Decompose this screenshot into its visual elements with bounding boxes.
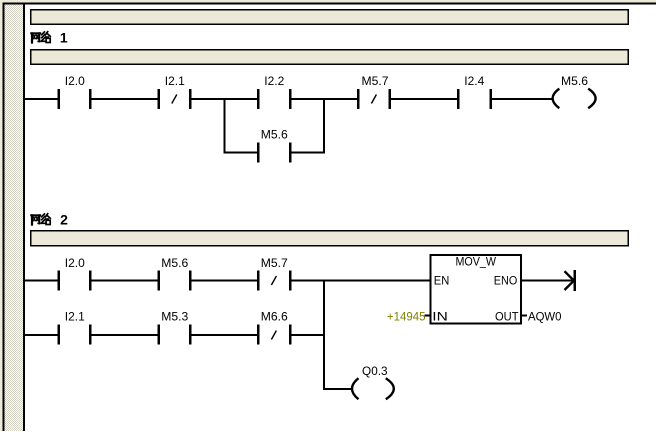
contact I2.1 (net2) (58, 310, 92, 345)
contact I2.4 (457, 74, 492, 109)
contact M5.6 (parallel) (257, 128, 292, 163)
wire I2.1 to I2.2 (192, 98, 258, 100)
branch vertical right (323, 98, 325, 154)
wire I2.4 to coil M5.6 (492, 98, 552, 100)
svg-text:I2.0: I2.0 (65, 74, 85, 88)
svg-text:I2.2: I2.2 (264, 74, 284, 88)
wire branch to Q0.3 coil (323, 388, 351, 390)
branch wire left (224, 152, 258, 154)
tick IN input (425, 315, 430, 317)
left black border line (3, 3, 5, 432)
svg-text:M5.7: M5.7 (261, 256, 288, 270)
branch vertical (net2) (323, 280, 325, 391)
svg-text:M5.6: M5.6 (261, 128, 288, 142)
wire rail to I2.1 (row 2) (25, 334, 58, 336)
program title bar (30, 9, 629, 25)
wire M5.7 to I2.4 (391, 98, 457, 100)
wire I2.0 to I2.1 (92, 98, 158, 100)
wire rail to I2.0 (row 1) (25, 280, 58, 282)
svg-text:M5.6: M5.6 (561, 74, 588, 88)
contact I2.0 (net2) (58, 256, 92, 291)
svg-text:I2.1: I2.1 (65, 310, 85, 324)
branch vertical left (224, 98, 226, 154)
svg-text:M5.7: M5.7 (362, 74, 389, 88)
wire ENO output (522, 280, 574, 282)
network 1 comment bar (30, 49, 629, 65)
contact M5.7 (NC, net2) (257, 256, 292, 291)
contact M5.6 (net2) (158, 256, 192, 291)
network 2 comment bar (30, 230, 629, 247)
arrow rung end (565, 270, 577, 291)
svg-text:M6.6: M6.6 (261, 310, 288, 324)
svg-text:M5.3: M5.3 (161, 310, 188, 324)
branch wire right (292, 152, 326, 154)
wire rail to I2.0 (25, 98, 58, 100)
wire I2.2 to M5.7 (292, 98, 358, 100)
top beige window edge (0, 0, 656, 3)
wire M6.6 to branch (292, 334, 326, 336)
svg-text:ENO: ENO (494, 274, 518, 288)
network 2 label (31, 212, 68, 228)
svg-text:2: 2 (60, 212, 68, 228)
contact I2.0 (58, 74, 92, 109)
left beige window edge (0, 0, 3, 431)
tick OUT output (522, 315, 527, 317)
contact I2.1 (NC) (158, 74, 192, 109)
svg-text:I2.1: I2.1 (165, 74, 185, 88)
svg-text:1: 1 (60, 30, 68, 46)
wire I2.1 to M5.3 (92, 334, 158, 336)
wire M5.6 to M5.7 (192, 280, 258, 282)
network 1 label (31, 30, 68, 46)
svg-text:I2.4: I2.4 (464, 74, 484, 88)
svg-text:EN: EN (434, 274, 450, 288)
contact M5.7 (NC) (357, 74, 391, 109)
coil Q0.3 (352, 364, 394, 399)
box MOV_W (430, 254, 523, 325)
wire M5.3 to M6.6 (192, 334, 258, 336)
wire I2.0 to M5.6 (92, 280, 158, 282)
left dithered gutter (5, 5, 24, 432)
svg-text:Q0.3: Q0.3 (362, 364, 388, 378)
wire M5.7 to MOV_W EN (292, 280, 430, 282)
contact M5.3 (158, 310, 192, 345)
svg-text:+14945: +14945 (387, 310, 426, 324)
left power rail (23, 5, 25, 432)
svg-text:OUT: OUT (495, 310, 519, 324)
svg-text:M5.6: M5.6 (161, 256, 188, 270)
svg-text:MOV_W: MOV_W (455, 255, 496, 269)
coil M5.6 (553, 74, 596, 108)
svg-text:AQW0: AQW0 (528, 310, 562, 324)
contact M6.6 (NC) (257, 310, 292, 345)
svg-text:I2.0: I2.0 (65, 256, 85, 270)
svg-text:IN: IN (432, 310, 448, 324)
top black border line (3, 3, 656, 5)
contact I2.2 (257, 74, 292, 109)
